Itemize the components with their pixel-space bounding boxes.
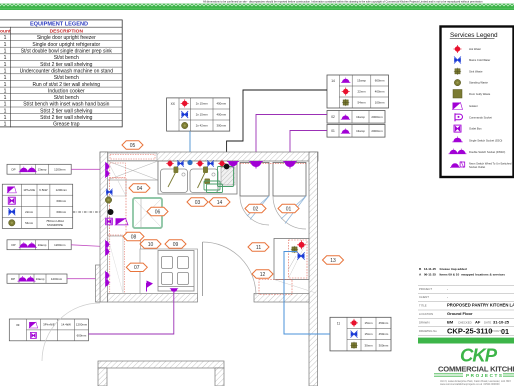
tap 1: [168, 167, 178, 188]
svg-text:01: 01: [331, 129, 335, 133]
commando socket legend: [455, 113, 463, 121]
wall shelving 12 dashed: [259, 280, 292, 295]
svg-text:450mm: 450mm: [216, 102, 226, 106]
svg-text:CKP: CKP: [460, 345, 498, 366]
svg-text:2000mm: 2000mm: [371, 115, 383, 119]
outlet box legend: [454, 125, 461, 132]
door swing lower-left opening: [42, 303, 100, 361]
bottom wall left segment: [108, 294, 198, 303]
svg-text:1: 1: [4, 62, 7, 68]
item tag 09: [165, 240, 186, 248]
svg-text:15mm: 15mm: [364, 321, 373, 325]
left wall pier: [96, 265, 101, 302]
svg-text:400mm: 400mm: [375, 90, 385, 94]
item tag 01: [278, 204, 299, 212]
svg-text:DESCRIPTION: DESCRIPTION: [50, 29, 84, 35]
wire table11 blue: [284, 252, 330, 335]
svg-text:CHECKED: CHECKED: [458, 320, 472, 324]
service tag table XX (sink supplies): [167, 98, 230, 131]
projects stripes: [434, 374, 514, 377]
title block rows: [418, 286, 514, 336]
svg-text:Hot Water: Hot Water: [469, 47, 481, 51]
svg-text:1200mm: 1200mm: [56, 188, 68, 192]
svg-text:11: 11: [256, 245, 261, 251]
item tag 07: [126, 263, 147, 271]
svg-text:54mm: 54mm: [25, 221, 34, 225]
mains cold water legend: [454, 57, 461, 64]
neon switch legend: [450, 161, 465, 168]
socket refrigerator: [249, 162, 263, 169]
svg-text:13amp: 13amp: [356, 115, 365, 119]
svg-text:2x 42mm: 2x 42mm: [196, 124, 208, 128]
svg-text:15mm: 15mm: [364, 332, 373, 336]
svg-text:1: 1: [4, 88, 7, 94]
svg-text:13: 13: [330, 258, 336, 264]
svg-text:-: -: [447, 287, 448, 291]
left wall: [100, 152, 108, 302]
wall DSSO socket upper left: [106, 162, 111, 178]
item tag 08: [123, 232, 144, 240]
bottom wall right segment: [254, 294, 309, 303]
svg-text:13amp: 13amp: [36, 277, 45, 281]
svg-text:08: 08: [131, 234, 137, 240]
svg-text:St/st bench: St/st bench: [54, 75, 79, 81]
svg-text:All dimensions to be confirmed: All dimensions to be confirmed on site -…: [203, 0, 483, 4]
svg-text:02: 02: [331, 115, 335, 119]
svg-text:400mm: 400mm: [216, 113, 226, 117]
svg-text:600mm: 600mm: [375, 79, 385, 83]
svg-text:10: 10: [148, 242, 154, 248]
floor gully waste legend: [453, 90, 462, 99]
hot water legend: [454, 45, 462, 53]
svg-text:12: 12: [260, 272, 266, 278]
bench 11 wash hand basin: [274, 239, 309, 280]
lower room right jamb: [215, 368, 224, 386]
svg-text:2x 15mm: 2x 15mm: [196, 113, 208, 117]
service tag table 01 freezer: [327, 125, 385, 138]
svg-text:14: 14: [217, 200, 223, 206]
svg-text:PROJECTS: PROJECTS: [466, 373, 504, 378]
svg-text:Single Switch Socket (SSO): Single Switch Socket (SSO): [469, 138, 502, 142]
svg-text:CLIENT: CLIENT: [419, 295, 429, 299]
svg-text:Outlet Box: Outlet Box: [469, 127, 482, 131]
item tag 13: [323, 256, 344, 264]
svg-text:1: 1: [4, 35, 7, 41]
svg-text:600mm: 600mm: [56, 210, 66, 214]
svg-text:31-10-25: 31-10-25: [493, 319, 510, 324]
svg-text:600mm: 600mm: [77, 333, 87, 337]
item tag 03: [187, 198, 208, 206]
svg-text:B 13-11-25 Grease trap ad: B 13-11-25 Grease trap added: [419, 267, 467, 271]
svg-text:13amp: 13amp: [38, 168, 47, 172]
sink bowl 2: [190, 169, 218, 193]
svg-text:STANDPIPE: STANDPIPE: [47, 223, 63, 227]
service tag table DP socket (item 05 area): [7, 164, 71, 174]
svg-text:DRAWING No: DRAWING No: [419, 329, 437, 333]
svg-text:1: 1: [4, 122, 7, 128]
bench 04 top-left: [108, 161, 159, 180]
svg-text:600mm: 600mm: [56, 199, 66, 203]
wall DSSO socket mid left: [106, 240, 111, 256]
svg-text:DP: DP: [11, 168, 15, 172]
hot water point sink left: [166, 160, 174, 168]
service tag table DP socket (item 07 area): [7, 240, 71, 250]
sink bench 03: [158, 161, 237, 194]
svg-text:TITLE: TITLE: [419, 303, 427, 307]
top wall: [100, 152, 318, 161]
svg-text:54mm: 54mm: [357, 101, 366, 105]
svg-text:1200mm: 1200mm: [51, 277, 63, 281]
svg-text:PROPOSED PANTRY KITCHEN LAYOUT: PROPOSED PANTRY KITCHEN LAYOUT: [447, 303, 514, 308]
double switch socket legend: [449, 149, 467, 154]
wall shelving 08 dashed run: [110, 178, 127, 236]
svg-text:09: 09: [16, 323, 20, 327]
cooker isolator flag: [147, 281, 154, 292]
wall isolator flag left: [116, 218, 129, 225]
svg-text:St/st 2 tier wall shelving: St/st 2 tier wall shelving: [40, 108, 92, 114]
wire table14 black: [227, 90, 327, 164]
single switch socket legend: [452, 137, 462, 142]
green banner strip: [0, 4, 514, 10]
item tag 02: [245, 204, 266, 212]
item tag 14: [209, 198, 230, 206]
svg-text:1200mm: 1200mm: [54, 168, 66, 172]
svg-text:30mm: 30mm: [364, 343, 373, 347]
bench 07: [108, 236, 141, 294]
wall outlet box left: [106, 218, 113, 225]
svg-text:1: 1: [4, 49, 7, 55]
svg-text:1: 1: [4, 115, 7, 121]
wire table02 purple: [256, 115, 327, 162]
svg-text:Floor Gully Waste: Floor Gully Waste: [469, 92, 491, 96]
svg-text:Sink Waste: Sink Waste: [469, 69, 483, 73]
wire table3 to wall socket: [71, 245, 104, 247]
item tag 06: [147, 207, 168, 215]
svg-text:13amp: 13amp: [356, 129, 365, 133]
service tag table 02 refrigerator: [327, 111, 385, 124]
svg-text:01: 01: [501, 327, 509, 336]
svg-text:Ground Floor: Ground Floor: [447, 311, 473, 316]
svg-text:St/st bench: St/st bench: [54, 55, 79, 61]
cold feed node on riser: [187, 160, 192, 165]
services legend box: [441, 27, 514, 178]
svg-text:1: 1: [4, 108, 7, 114]
svg-text:1200mm: 1200mm: [54, 243, 66, 247]
svg-text:09: 09: [173, 242, 179, 248]
svg-text:06: 06: [155, 209, 161, 215]
title row: [0, 26, 122, 28]
svg-text:LOCATION: LOCATION: [419, 312, 433, 316]
door swing bottom opening: [203, 242, 257, 296]
svg-text:300mm: 300mm: [216, 124, 226, 128]
svg-text:14: 14: [331, 79, 335, 83]
svg-text:PROJECT: PROJECT: [419, 287, 432, 291]
lower room left jamb: [98, 368, 107, 386]
svg-text:04: 04: [137, 186, 143, 192]
svg-text:St/st double bowl single drain: St/st double bowl single drainer prep si…: [21, 49, 113, 55]
svg-text:St/st bench with inset wash ha: St/st bench with inset wash hand basin: [23, 102, 109, 108]
svg-text:22mm: 22mm: [357, 90, 366, 94]
item tag 04: [129, 184, 150, 192]
svg-text:450mm: 450mm: [379, 321, 389, 325]
svg-text:Undercounter dishwash machine: Undercounter dishwash machine on stand: [20, 69, 114, 75]
cold water point sink right: [207, 160, 214, 167]
svg-text:02: 02: [253, 206, 259, 212]
svg-text:05: 05: [130, 143, 136, 149]
svg-text:1: 1: [4, 42, 7, 48]
svg-text:1: 1: [4, 75, 7, 81]
count column divider: [10, 27, 12, 127]
service tag table 14 grease trap: [327, 75, 389, 108]
svg-text:Count: Count: [0, 29, 11, 35]
svg-text:1: 1: [4, 82, 7, 88]
svg-text:1Ph+N/E: 1Ph+N/E: [23, 188, 35, 192]
svg-text:01: 01: [286, 206, 292, 212]
svg-text:Double Switch Socket (DSSO): Double Switch Socket (DSSO): [469, 150, 505, 154]
tap 2: [198, 167, 211, 189]
svg-text:Commando Socket: Commando Socket: [469, 115, 492, 119]
svg-text:Isolator: Isolator: [469, 104, 478, 108]
svg-text:DP: DP: [11, 277, 15, 281]
bench 10: [140, 249, 198, 294]
wall black junction node left: [108, 209, 114, 215]
svg-text:Grease trap: Grease trap: [53, 122, 80, 128]
svg-text:Single door upright refrigerat: Single door upright refrigerator: [32, 42, 100, 48]
item tag 10: [140, 240, 161, 248]
basin cold water point: [297, 252, 304, 259]
refrigerator 02: [240, 163, 269, 197]
item rows: [0, 41, 122, 121]
svg-text:DATE: DATE: [484, 320, 491, 324]
black junction node grease trap: [224, 164, 230, 170]
svg-text:100mm: 100mm: [375, 101, 385, 105]
basin sink waste point: [291, 246, 298, 253]
induction cooker 09: [158, 251, 194, 292]
lower room top wall: [98, 361, 224, 368]
sink waste legend: [454, 68, 461, 75]
isolator legend: [453, 103, 463, 110]
svg-text:www.commercialkitchenprojects.: www.commercialkitchenprojects.co.uk 0152…: [440, 383, 500, 386]
wire XX table to sink blue riser: [189, 131, 191, 162]
svg-text:2000mm: 2000mm: [371, 129, 383, 133]
socket freezer: [283, 162, 297, 169]
service tag table item 09 induction cooker: [9, 319, 88, 341]
svg-text:Run of st/st 2 tier wall shelv: Run of st/st 2 tier wall shelving: [33, 82, 101, 88]
red dashed service zone fridges: [240, 163, 306, 165]
svg-text:-: -: [447, 295, 448, 299]
svg-text:BM: BM: [447, 319, 454, 324]
svg-text:3Ph+N/E: 3Ph+N/E: [43, 323, 55, 327]
svg-text:Socket Outlet: Socket Outlet: [469, 165, 485, 169]
sink bowl 1: [161, 169, 188, 193]
wall cold water point left: [106, 189, 113, 196]
hot water point grease trap: [218, 160, 226, 168]
cold water point sink left: [177, 160, 184, 167]
cooker socket bottom: [170, 289, 178, 293]
red dashed zone bench 04: [110, 163, 126, 178]
service tag table DP socket (item 08 area): [7, 274, 67, 283]
item tag 12: [252, 270, 273, 278]
svg-text:450mm: 450mm: [379, 332, 389, 336]
svg-text:Standing Waste: Standing Waste: [469, 81, 488, 85]
service tag table item 06 (isolator/outlet/cw/waste): [2, 184, 72, 228]
wire table1 to wall socket: [71, 168, 104, 170]
svg-text:A 06-11-25 Items 09 & 10: A 06-11-25 Items 09 & 10 swapped locatio…: [419, 273, 505, 277]
svg-text:Mains Cold Water: Mains Cold Water: [469, 58, 490, 62]
svg-text:2x 15mm: 2x 15mm: [196, 102, 208, 106]
green bar: [418, 338, 514, 344]
hot water point sink right: [196, 160, 204, 168]
svg-text:1: 1: [4, 102, 7, 108]
svg-text:St/st bench: St/st bench: [54, 95, 79, 101]
svg-text:07: 07: [134, 265, 140, 271]
svg-text:300mm: 300mm: [379, 343, 389, 347]
svg-text:EQUIPMENT LEGEND: EQUIPMENT LEGEND: [30, 22, 88, 28]
svg-text:1200mm: 1200mm: [76, 323, 88, 327]
header row: [0, 33, 122, 35]
wire table2 to wall black dash-dot: [73, 211, 107, 213]
right wall: [309, 152, 318, 386]
svg-text:Single door upright freezer: Single door upright freezer: [37, 35, 96, 41]
svg-text:Services Legend: Services Legend: [450, 32, 498, 39]
equipment legend table: [0, 20, 122, 128]
basin hot water point: [297, 240, 306, 249]
wall DSSO socket lower left: [106, 271, 111, 287]
svg-text:AF: AF: [475, 319, 481, 324]
svg-text:St/st 2 tier wall shelving: St/st 2 tier wall shelving: [40, 62, 92, 68]
standing waste legend: [454, 79, 460, 85]
svg-text:1: 1: [4, 55, 7, 61]
svg-text:Induction cooker: Induction cooker: [48, 88, 85, 94]
svg-text:CKP-25-3110: CKP-25-3110: [447, 327, 492, 336]
svg-text:14.4kW: 14.4kW: [61, 323, 71, 327]
svg-text:COMMERCIAL KITCHEN: COMMERCIAL KITCHEN: [438, 364, 514, 373]
svg-text:Neon Switch Wired To Un-Switch: Neon Switch Wired To Un-Switched: [469, 162, 512, 166]
svg-text:03: 03: [195, 200, 201, 206]
freezer 01: [273, 163, 306, 197]
svg-text:1: 1: [4, 95, 7, 101]
wire table5 to cooker socket: [89, 292, 174, 334]
svg-text:DRAWN: DRAWN: [419, 320, 429, 324]
wall shelving 05 on top wall: [108, 153, 157, 161]
svg-text:11: 11: [337, 322, 341, 326]
svg-text:13amp: 13amp: [357, 79, 366, 83]
wire table01 purple: [290, 131, 327, 162]
svg-text:DP: DP: [11, 243, 15, 247]
svg-text:St/st 2 tier wall shelving: St/st 2 tier wall shelving: [40, 115, 92, 121]
wire table4 to wall socket: [67, 278, 104, 280]
item tag 05: [122, 141, 143, 149]
socket above grease trap: [227, 162, 239, 168]
service tag table 11 wash hand basin: [330, 317, 391, 351]
svg-text:1: 1: [4, 69, 7, 75]
wall standing waste left: [105, 197, 111, 203]
svg-text:6.5kW: 6.5kW: [39, 188, 47, 192]
item tag 11: [248, 243, 269, 251]
svg-text:22mm: 22mm: [25, 210, 34, 214]
svg-text:13amp: 13amp: [38, 243, 47, 247]
red dashed zone bench 07: [109, 236, 111, 293]
grease trap 14: [221, 167, 235, 185]
dishwasher 06: [133, 198, 162, 228]
